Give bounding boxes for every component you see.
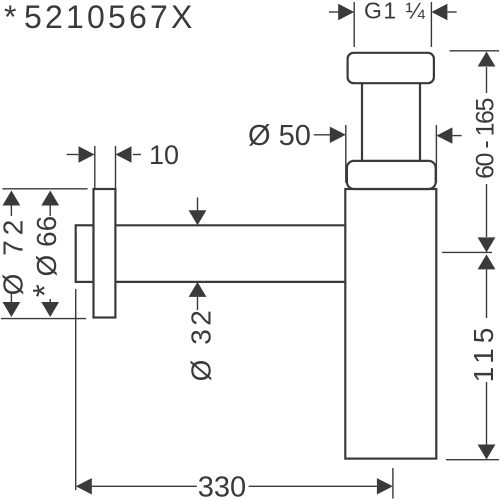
- G1 1/4 dimension left arrow: [329, 11, 342, 13]
- standpipe left wall: [361, 83, 363, 161]
- svg-text:* Ø 66: * Ø 66: [26, 216, 63, 297]
- horizontal pipe bottom wall: [115, 281, 345, 283]
- flange top extension line: [2, 188, 87, 190]
- wall flange rosette: [94, 189, 116, 318]
- diameter 72 dimension line lower: [10, 292, 12, 303]
- 330 dimension right extension line: [392, 468, 394, 499]
- flange bottom extension line: [1, 318, 86, 320]
- collar nut above body: [347, 161, 436, 189]
- height dimension line 60-165 lower segment with down arrow at mid tick: [486, 184, 488, 237]
- diameter 50 right arrow: [452, 135, 461, 137]
- svg-text:Ø 50: Ø 50: [248, 120, 311, 152]
- 60 - 165 label (rotated): [472, 99, 500, 179]
- svg-text:330: 330: [198, 472, 246, 500]
- diameter 66 dimension line upper: [41, 191, 59, 206]
- diameter 32 lower arrow leader: [189, 282, 207, 297]
- svg-text:G1 ¼: G1 ¼: [364, 0, 426, 24]
- height dimension line 60-165 upper segment: [486, 67, 488, 93]
- G1 1/4 dimension right arrow: [448, 11, 457, 13]
- standpipe right wall: [419, 83, 421, 161]
- diameter 72 label (rotated): [0, 215, 29, 296]
- svg-text:60 - 165: 60 - 165: [472, 99, 500, 179]
- 115 dimension upper arrow: [478, 254, 496, 269]
- svg-text:10: 10: [149, 140, 179, 170]
- diameter 66 dimension line lower: [49, 299, 51, 303]
- diameter 72 dimension line upper: [3, 191, 21, 206]
- diameter 32 label (rotated): [186, 307, 217, 382]
- 330 dimension left arrow: [76, 478, 92, 494]
- svg-text:115: 115: [468, 323, 499, 383]
- svg-text:5210567X: 5210567X: [24, 0, 196, 35]
- siphon body: [345, 189, 436, 459]
- G1 1/4 dimension right extension line: [430, 2, 432, 47]
- diameter 50 left arrow: [314, 134, 331, 136]
- 10 dimension left arrow: [67, 154, 79, 156]
- top union nut: [348, 53, 434, 83]
- svg-text:Ø 72: Ø 72: [0, 215, 29, 296]
- svg-text:Ø 32: Ø 32: [186, 307, 217, 382]
- 10 dimension right arrow: [133, 154, 141, 156]
- 330 dimension left extension line: [75, 289, 77, 490]
- diameter 66 label with asterisk (rotated): [26, 216, 63, 297]
- diameter 50 left extension line: [345, 125, 347, 183]
- flange thickness 10 dimension extension lines: [94, 146, 96, 188]
- diameter 50 right extension line: [435, 125, 437, 183]
- horizontal pipe top wall: [115, 224, 345, 226]
- nut top extension line for height dimension: [450, 50, 499, 52]
- svg-text:*: *: [4, 0, 16, 35]
- body bottom extension line: [446, 459, 499, 461]
- diameter 32 upper arrow leader: [197, 198, 199, 211]
- 115 dimension lower segment: [486, 382, 488, 446]
- 330 dimension right arrow: [249, 485, 377, 487]
- G1 1/4 dimension left extension line: [353, 2, 355, 47]
- 115 label (rotated): [468, 323, 499, 383]
- wall pipe stub: [76, 225, 94, 282]
- mid tick line between 60-165 and 115 dimensions: [442, 251, 492, 253]
